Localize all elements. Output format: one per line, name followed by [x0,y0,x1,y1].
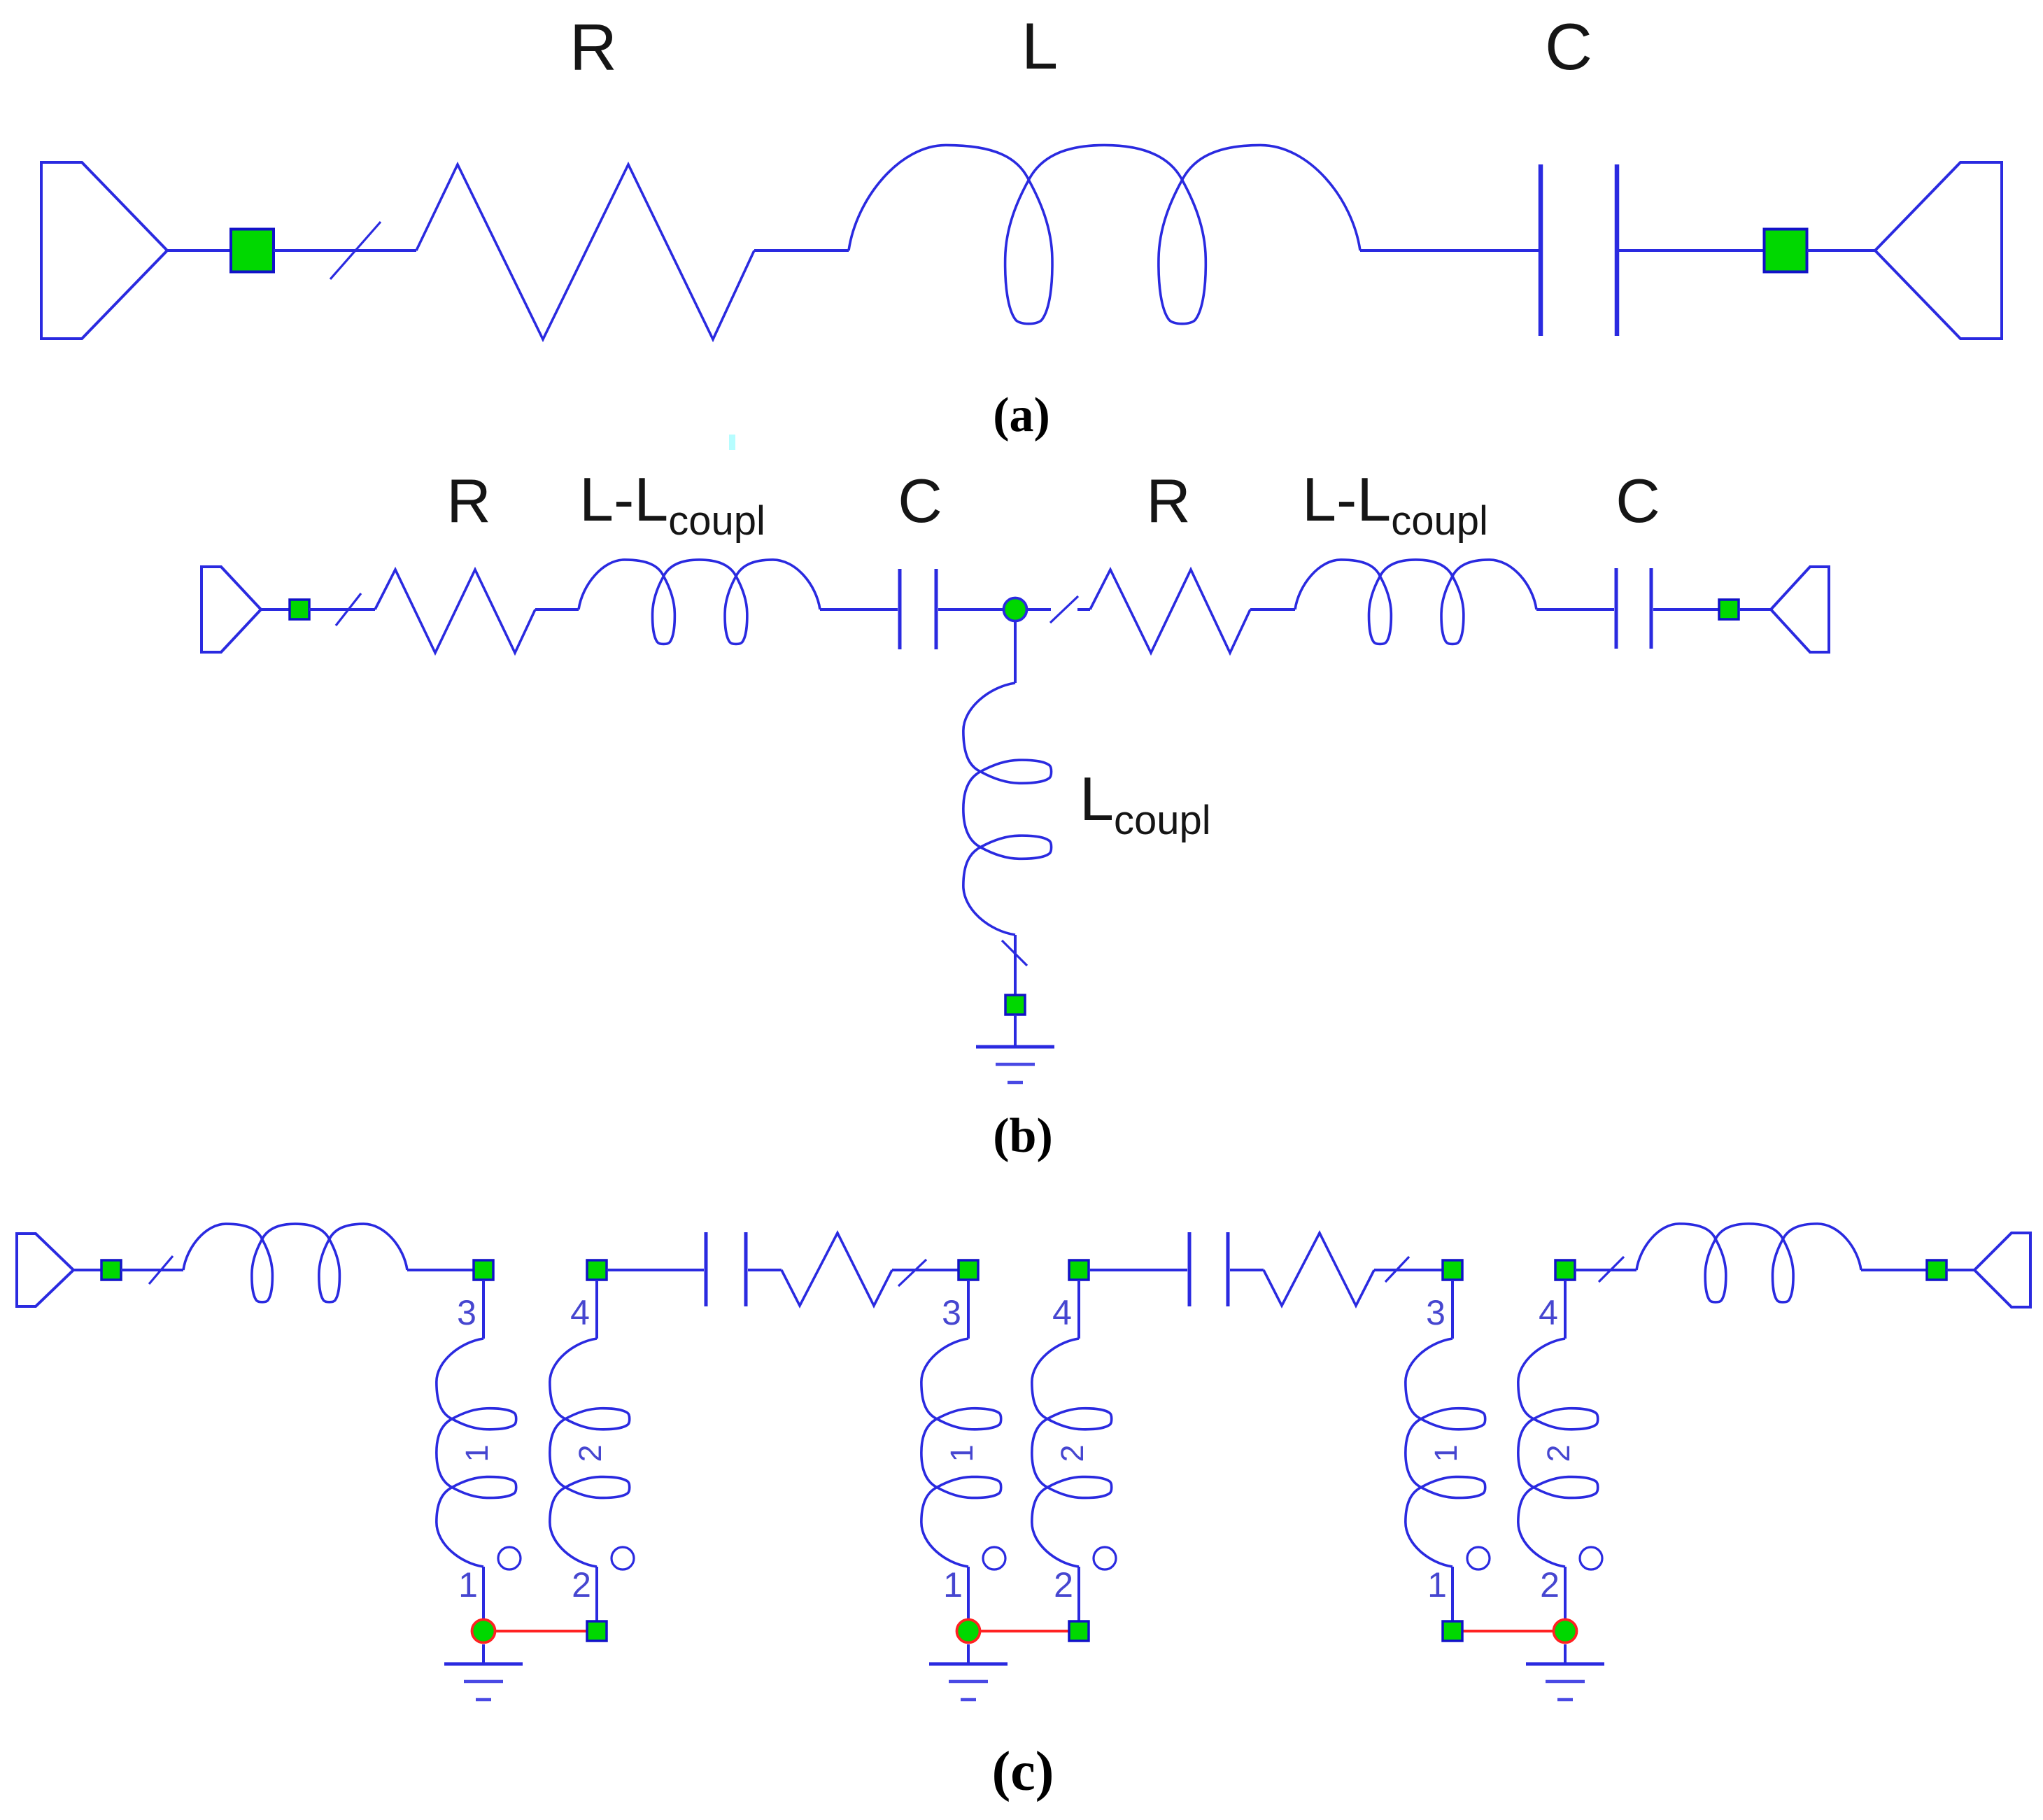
port P1 (a) [41,162,167,339]
wire square to ground [1014,1015,1017,1047]
wire terminal 4 to winding 2 [595,1280,598,1339]
wire [938,608,1003,611]
phase dot winding 2 transformer 3 [1580,1547,1602,1569]
wire winding 2 to square [595,1567,598,1621]
wire winding 1 to node [967,1567,970,1618]
wire [1619,249,1765,252]
inductor Lcoupl (b) [963,683,1052,935]
svg-text:3: 3 [942,1293,961,1332]
transformer 1 winding 2 coil [550,1339,630,1567]
svg-text:R: R [446,466,491,535]
inductor L (a) [849,145,1360,323]
wire terminal 4 to winding 2 [1564,1280,1567,1339]
svg-text:4: 4 [570,1293,590,1332]
wire [1739,608,1771,611]
tuning tick 3 (c) [1385,1257,1409,1282]
inductor 2 (c) [1636,1224,1861,1302]
wire Lcoupl to tick [1014,935,1017,995]
wire [1027,608,1051,611]
wire terminal 3 to winding 1 [967,1280,970,1339]
port terminal square P2 (b) [1719,600,1739,619]
capacitor 1 (c) [706,1232,746,1306]
svg-text:(b): (b) [993,1109,1053,1163]
port terminal square P1 (a) [231,230,274,272]
wire [1250,608,1295,611]
tuning tick 3 (b) [1002,940,1027,966]
transformer 2 winding 1 coil [921,1339,1001,1567]
inductor L-Lcoupl 2 (b) [1295,560,1536,644]
capacitor C2 (b) [1616,568,1651,649]
ground node circle transformer 1 [472,1620,495,1643]
red wire transformer 3 [1462,1630,1553,1632]
wire [167,249,232,252]
inductor 1 (c) [183,1224,407,1302]
wire [1575,1269,1636,1271]
svg-text:1: 1 [1428,1444,1464,1462]
wire [607,1269,704,1271]
ground node circle transformer 2 [957,1620,980,1643]
ground node circle transformer 3 [1554,1620,1577,1643]
wire [1360,249,1539,252]
svg-text:C: C [1545,10,1592,83]
wire winding 1 to node [482,1567,485,1618]
wire [820,608,898,611]
port P1 (b) [202,567,261,652]
transformer 3 winding 2 coil [1518,1339,1598,1567]
wire [1077,608,1090,611]
transformer 2 terminal 4 square [1069,1260,1089,1280]
wire node to ground [1564,1644,1567,1664]
wire winding 2 to node [1564,1567,1567,1618]
svg-text:4: 4 [1052,1293,1072,1332]
tuning tick 1 (c) [149,1256,173,1284]
wire [1089,1269,1187,1271]
svg-text:R: R [1146,466,1191,535]
resistor R1 (b) [375,570,535,653]
svg-text:3: 3 [457,1293,476,1332]
ground transformer 2 [929,1664,1008,1700]
wire terminal 3 to winding 1 [482,1280,485,1339]
wire terminal 4 to winding 2 [1077,1280,1080,1339]
wire [261,608,290,611]
node (b) junction [1004,598,1027,621]
red wire transformer 2 [980,1630,1069,1632]
svg-text:1: 1 [458,1565,478,1604]
resistor R (a) [416,164,754,339]
svg-text:2: 2 [572,1444,608,1462]
wire [1653,608,1720,611]
wire [535,608,579,611]
port terminal square P2 (a) [1765,230,1807,272]
wire terminal 3 to winding 1 [1451,1280,1454,1339]
transformer 3 terminal 4 square [1555,1260,1575,1280]
tuning tick 2 (c) [898,1260,926,1286]
transformer 3 terminal 3 square [1443,1260,1462,1280]
wire node to ground [967,1644,970,1664]
wire node to ground [482,1644,485,1664]
tuning tick 2 (b) [1050,596,1078,623]
phase dot winding 1 transformer 1 [498,1547,521,1569]
wire [121,1269,183,1271]
svg-text:(c): (c) [992,1741,1054,1803]
svg-text:L: L [1022,9,1058,83]
svg-text:2: 2 [1541,1444,1576,1462]
tuning tick (a) [330,222,381,279]
svg-text:R: R [570,10,617,84]
svg-text:2: 2 [572,1565,591,1604]
wire [1807,249,1875,252]
svg-text:1: 1 [944,1444,980,1462]
svg-text:C: C [898,466,942,535]
port P1 (c) [17,1234,73,1306]
wire winding 2 to square [1077,1567,1080,1621]
ground transformer 3 [1526,1664,1604,1700]
transformer 1 winding 1 coil [437,1339,516,1567]
svg-text:1: 1 [943,1565,963,1604]
transformer 2 terminal 3 square [959,1260,978,1280]
red wire transformer 1 [495,1630,587,1632]
resistor 1 (c) [782,1233,892,1306]
capacitor C1 (b) [900,569,936,649]
wire [1374,1269,1443,1271]
cyan artifact [729,435,735,450]
terminal 2 square transformer 1 [587,1621,607,1641]
svg-text:1: 1 [1427,1565,1447,1604]
svg-text:4: 4 [1539,1293,1558,1332]
svg-text:2: 2 [1054,1565,1073,1604]
capacitor C (a) [1541,164,1617,336]
terminal 2 square transformer 2 [1069,1621,1089,1641]
wire [407,1269,474,1271]
wire [309,608,375,611]
wire [73,1269,101,1271]
svg-text:3: 3 [1426,1293,1445,1332]
wire [1230,1269,1264,1271]
inductor L-Lcoupl 1 (b) [579,560,820,644]
wire winding 1 to square [1451,1567,1454,1621]
phase dot winding 2 transformer 1 [612,1547,634,1569]
ground terminal square (b) [1005,995,1025,1015]
wire [274,249,416,252]
svg-text:2: 2 [1054,1444,1090,1462]
tuning tick 4 (c) [1599,1257,1624,1282]
transformer 1 terminal 3 square [474,1260,493,1280]
tuning tick 1 (b) [336,593,361,626]
wire [748,1269,782,1271]
capacitor 2 (c) [1189,1232,1228,1306]
transformer 1 terminal 4 square [587,1260,607,1280]
ground (b) [976,1047,1054,1082]
wire [754,249,849,252]
phase dot winding 1 transformer 2 [983,1547,1005,1569]
port P2 (b) [1771,567,1829,652]
wire [1536,608,1614,611]
terminal 1 square transformer 3 [1443,1621,1462,1641]
port P2 (c) [1974,1233,2030,1307]
port P2 (a) [1875,162,2002,339]
transformer 2 winding 2 coil [1032,1339,1112,1567]
wire [1861,1269,1928,1271]
port terminal square P2 (c) [1927,1260,1946,1280]
svg-text:1: 1 [459,1444,495,1462]
port terminal square P1 (c) [101,1260,121,1280]
phase dot winding 2 transformer 2 [1094,1547,1116,1569]
transformer 3 winding 1 coil [1406,1339,1485,1567]
wire [1946,1269,1974,1271]
resistor 2 (c) [1264,1233,1374,1306]
svg-text:C: C [1616,466,1660,535]
svg-text:2: 2 [1540,1565,1560,1604]
port terminal square P1 (b) [290,600,309,619]
ground transformer 1 [444,1664,523,1700]
phase dot winding 1 transformer 3 [1467,1547,1490,1569]
wire node to Lcoupl [1014,621,1017,683]
svg-text:(a): (a) [993,388,1050,442]
resistor R2 (b) [1090,570,1250,653]
wire [892,1269,959,1271]
